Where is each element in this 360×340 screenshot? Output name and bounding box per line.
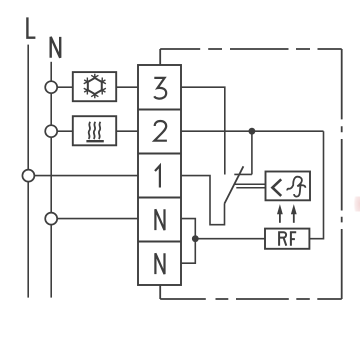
wire live row (L to terminal 1) — [35, 175, 138, 177]
RF module box — [265, 229, 309, 249]
label L — [27, 17, 35, 37]
symbol less-than — [272, 179, 281, 196]
terminal label 3 — [154, 78, 166, 99]
wire heating row right — [116, 130, 138, 132]
wire terminal strip top tab — [159, 49, 161, 65]
wire cooling row right — [116, 86, 138, 88]
terminal label 2 — [154, 121, 167, 141]
wire L line upper — [27, 45, 29, 170]
wire terminal 1 to switch pivot — [181, 176, 225, 225]
wire junction to RF left — [195, 238, 265, 240]
terminal label N (lower) — [155, 253, 164, 274]
heating load box — [73, 116, 116, 145]
cooling load box — [73, 72, 116, 101]
arrow up 2 — [291, 204, 297, 223]
terminal circle N heating row — [45, 125, 57, 137]
wire N line seg1 — [50, 62, 52, 81]
wire L line lower — [27, 182, 29, 298]
node junction on jumper — [192, 235, 199, 242]
enclosure right border (dash-dot) — [341, 49, 343, 299]
terminal strip outline — [138, 65, 181, 285]
label N — [51, 37, 61, 58]
terminal circle N cooling row — [45, 81, 57, 93]
wire N line seg4 — [50, 225, 52, 298]
node junction on terminal 2 wire — [249, 128, 256, 135]
terminal circle on L line — [22, 170, 34, 182]
terminal divider 3/2 — [138, 109, 181, 111]
wire N-N jumper bracket — [181, 219, 195, 264]
thermostat sensor box U1 — [266, 172, 311, 201]
enclosure top border (dash-dot) — [160, 48, 342, 50]
wire right branch down to RF — [309, 131, 323, 239]
wire cooling row left — [58, 86, 73, 88]
wire junction down to switch contact B — [251, 131, 253, 174]
terminal divider N/N — [138, 241, 181, 243]
symbol theta (temperature) — [287, 177, 305, 197]
terminal circle N neutral row — [45, 213, 57, 225]
switch contact B stub — [234, 173, 252, 175]
arrow up 1 — [277, 204, 283, 223]
wire N line seg2 — [50, 94, 52, 125]
label RF — [279, 232, 296, 246]
wire terminal 3 to switch contact — [181, 87, 225, 174]
terminal label 1 — [155, 166, 160, 188]
terminal divider 1/N — [138, 197, 181, 199]
mechanical link (double line) — [235, 184, 266, 187]
wire N line seg3 — [50, 138, 52, 213]
terminal divider 2/1 — [138, 153, 181, 155]
wire neutral row (N to terminal N) — [58, 218, 138, 220]
enclosure bottom border (dash-dot) — [160, 298, 342, 300]
heating icon (steam waves over bar) — [86, 122, 103, 141]
wire terminal strip bottom tab — [159, 285, 161, 299]
terminal label N (upper) — [155, 209, 164, 230]
switch blade — [225, 166, 244, 203]
wire terminal 2 row to right — [181, 130, 324, 132]
snowflake icon — [82, 74, 107, 99]
wire heating row left — [58, 130, 73, 132]
